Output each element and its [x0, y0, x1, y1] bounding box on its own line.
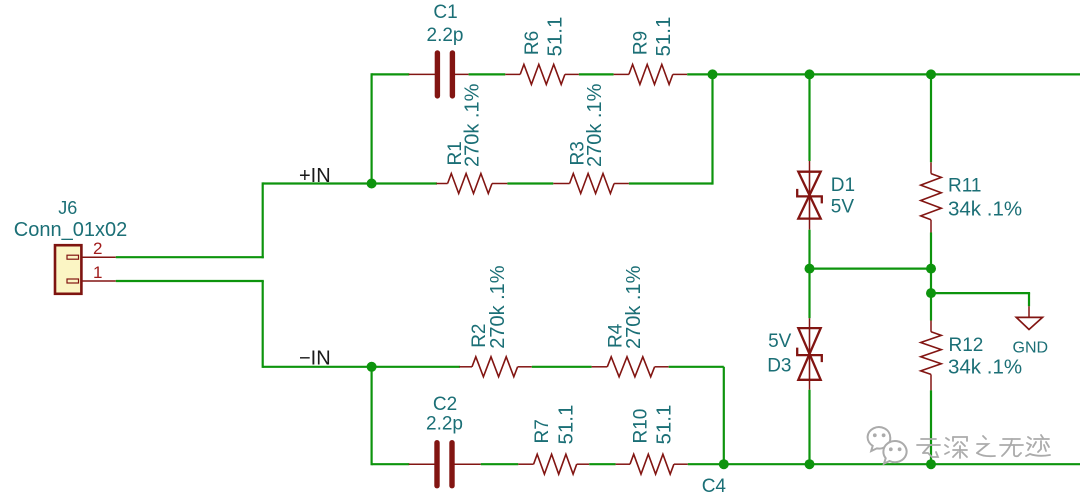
- svg-text:5V: 5V: [831, 197, 855, 218]
- resistor R2 lead right: [518, 366, 532, 368]
- resistor R12 lead top: [930, 321, 932, 332]
- wire top bus to D1: [808, 74, 810, 161]
- diode D3 lead bottom: [809, 380, 811, 390]
- node bottom bus junction R12: [926, 459, 936, 469]
- connector J6 pin 1 stub: [67, 279, 79, 283]
- wire top bus right: [687, 73, 1080, 75]
- svg-text:R6: R6: [522, 31, 543, 55]
- node bottom bus junction B: [719, 459, 729, 469]
- resistor R3 lead left: [553, 183, 569, 185]
- resistor R10 lead left: [616, 463, 630, 465]
- wire -IN to C2 row vertical: [371, 367, 373, 466]
- wire R6 to R9: [579, 73, 614, 75]
- resistor R6 lead right: [565, 73, 579, 75]
- wire corner down to bottom bus: [723, 367, 725, 466]
- wire bottom bus right: [688, 463, 1080, 465]
- capacitor C1: [435, 53, 440, 96]
- capacitor C2 lead right: [452, 463, 481, 465]
- resistor R1 lead left: [436, 183, 447, 185]
- resistor R9 lead right: [673, 73, 687, 75]
- resistor R9: [629, 64, 673, 84]
- svg-text:2.2p: 2.2p: [426, 414, 463, 435]
- wire R2 to R4: [532, 366, 592, 368]
- diode D1 TVS: [809, 172, 811, 219]
- resistor R4: [607, 357, 654, 377]
- wire mid to gnd node: [930, 269, 932, 295]
- wire R4 to corner: [669, 366, 724, 368]
- wire pin2 vertical up: [262, 182, 264, 258]
- wire R7 to R10: [589, 463, 615, 465]
- watermark text yun shen zhi wu ji: [917, 439, 940, 457]
- wire R3 to corner: [629, 182, 713, 184]
- resistor R4 lead right: [655, 366, 669, 368]
- resistor R1 lead right: [492, 183, 507, 185]
- svg-text:R10: R10: [631, 409, 652, 444]
- resistor R12 lead bottom: [930, 374, 932, 390]
- wire mid node to D3: [808, 269, 810, 319]
- wire +IN to C1 row vertical: [371, 73, 373, 184]
- svg-text:2: 2: [93, 239, 102, 258]
- node +IN junction: [367, 179, 377, 189]
- resistor R7 lead left: [518, 463, 533, 465]
- capacitor C2: [434, 443, 439, 486]
- node gnd tap junction: [926, 288, 936, 298]
- svg-text:5V: 5V: [768, 331, 792, 352]
- node top bus junction R11: [926, 69, 936, 79]
- wire C1 row left: [372, 73, 410, 75]
- svg-text:C4: C4: [702, 476, 727, 496]
- resistor R10: [630, 454, 674, 474]
- wire C2 row left: [372, 463, 410, 465]
- node top bus junction D1: [805, 69, 815, 79]
- capacitor C1 lead right: [452, 73, 468, 75]
- svg-text:34k .1%: 34k .1%: [948, 197, 1022, 220]
- resistor R6: [520, 64, 565, 84]
- node bottom bus junction D3: [805, 459, 815, 469]
- svg-text:34k .1%: 34k .1%: [948, 356, 1022, 379]
- connector J6 pin 2 lead: [81, 256, 115, 258]
- wire gnd tap vertical: [1028, 293, 1030, 306]
- svg-text:2.2p: 2.2p: [427, 25, 464, 46]
- connector J6 pin 1 lead: [81, 280, 115, 282]
- wire gnd tap horizontal: [931, 292, 1030, 294]
- svg-text:270k .1%: 270k .1%: [623, 265, 645, 349]
- resistor R4 lead left: [592, 366, 608, 368]
- diode D1 lead top: [809, 161, 811, 172]
- diode D3 lead top: [809, 318, 811, 328]
- resistor R10 lead right: [674, 463, 688, 465]
- wire +IN horizontal: [263, 182, 437, 184]
- svg-text:D3: D3: [767, 356, 791, 377]
- resistor R11: [921, 174, 942, 220]
- diode D1 lead bottom: [809, 219, 811, 230]
- wire top bus to R11: [930, 74, 932, 162]
- wire gnd node to R12: [930, 293, 932, 320]
- svg-text:51.1: 51.1: [555, 405, 578, 445]
- node mid junction left: [805, 264, 815, 274]
- wire R1 to R3: [507, 182, 553, 184]
- node top bus junction A: [708, 69, 718, 79]
- svg-text:+IN: +IN: [299, 165, 331, 187]
- svg-text:51.1: 51.1: [653, 405, 676, 445]
- svg-text:51.1: 51.1: [544, 17, 567, 57]
- wire D3 to bottom bus: [808, 390, 810, 466]
- svg-text:J6: J6: [58, 198, 77, 218]
- node mid junction right: [926, 264, 936, 274]
- svg-text:R12: R12: [949, 335, 984, 356]
- wire R11 to mid node: [930, 233, 932, 270]
- wire C2 to R7: [481, 463, 519, 465]
- svg-text:−IN: −IN: [299, 347, 331, 369]
- svg-text:C2: C2: [433, 394, 457, 415]
- svg-text:270k .1%: 270k .1%: [461, 83, 483, 167]
- resistor R7 lead right: [577, 463, 590, 465]
- resistor R11 lead bottom: [930, 220, 932, 233]
- svg-text:R7: R7: [532, 419, 553, 443]
- resistor R9 lead left: [614, 73, 629, 75]
- resistor R11 lead top: [930, 162, 932, 173]
- svg-text:1: 1: [93, 263, 102, 282]
- svg-text:D1: D1: [831, 175, 855, 196]
- resistor R2: [472, 357, 518, 377]
- svg-text:C1: C1: [433, 2, 457, 23]
- resistor R1: [448, 174, 492, 194]
- wire C1 to R6: [469, 73, 506, 75]
- resistor R2 lead left: [459, 366, 472, 368]
- capacitor C1 lead left: [409, 73, 438, 75]
- connector J6 pin 2 stub: [67, 255, 79, 259]
- resistor R3: [570, 174, 615, 194]
- wire R12 to bottom bus: [930, 390, 932, 465]
- capacitor C2 lead left: [409, 463, 437, 465]
- wire pin1 vertical down: [262, 281, 264, 368]
- svg-text:R11: R11: [948, 176, 981, 197]
- svg-text:Conn_01x02: Conn_01x02: [14, 219, 127, 241]
- resistor R6 lead left: [505, 73, 520, 75]
- watermark logo: [868, 427, 907, 464]
- wire -IN horizontal: [263, 366, 460, 368]
- svg-text:270k .1%: 270k .1%: [487, 265, 509, 349]
- diode D3 TVS: [809, 328, 811, 380]
- resistor R7: [534, 454, 577, 474]
- wire pin2 horizontal: [116, 256, 264, 258]
- wire D1 to mid node: [808, 230, 810, 270]
- power symbol GND: [1028, 306, 1030, 317]
- node -IN junction: [367, 362, 377, 372]
- resistor R12: [921, 332, 942, 375]
- wire pin1 horizontal: [116, 280, 264, 282]
- svg-text:51.1: 51.1: [652, 17, 675, 57]
- connector J6 body: [55, 245, 81, 294]
- wire mid wire: [810, 268, 932, 270]
- svg-text:R9: R9: [631, 31, 652, 55]
- svg-text:GND: GND: [1013, 340, 1049, 357]
- wire corner up to top bus: [711, 74, 713, 184]
- svg-text:270k .1%: 270k .1%: [584, 83, 606, 167]
- resistor R3 lead right: [614, 183, 629, 185]
